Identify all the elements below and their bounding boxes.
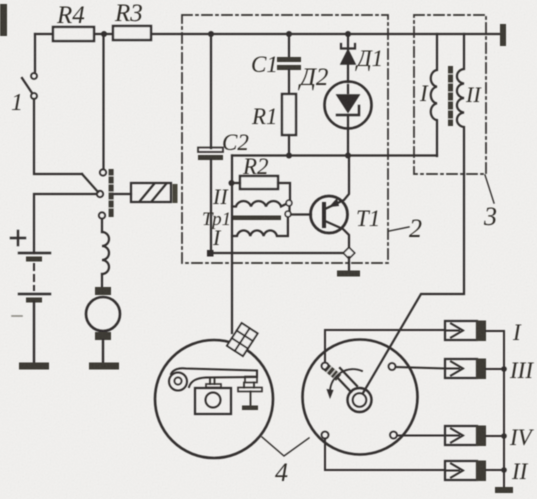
wire plug III right <box>486 368 504 370</box>
node junction R4-R3 <box>101 31 107 37</box>
ground battery <box>19 363 49 370</box>
relay armature arm <box>82 174 98 192</box>
ground generator <box>89 363 119 370</box>
node C1 top <box>286 31 292 37</box>
scan smudge top left corner <box>0 4 7 36</box>
label 3 pointer <box>485 175 494 203</box>
wire bottom rail <box>210 252 349 254</box>
ignition coil primary I <box>431 34 437 156</box>
breaker pivot <box>169 373 187 391</box>
node D1 top <box>345 31 351 37</box>
diode D1 <box>347 34 349 49</box>
wire R1 bottom <box>288 135 290 156</box>
breaker fixed contact <box>245 377 257 383</box>
node C2 top <box>208 31 214 37</box>
terminal chassis top right <box>500 24 506 46</box>
spark plug III <box>445 359 486 380</box>
node diamond emitter <box>343 247 354 258</box>
relay contact middle <box>97 191 103 197</box>
wire C2 bottom <box>210 160 212 253</box>
relay contact top <box>100 169 106 175</box>
wire HV to rotor <box>363 174 464 393</box>
resistor R2 <box>240 176 278 189</box>
transistor T1 <box>311 196 348 233</box>
ground emitter <box>337 271 360 277</box>
label 2 pointer <box>389 227 409 231</box>
wire D2 bottom <box>347 128 349 156</box>
spark plug II <box>445 461 486 482</box>
block 2 dash-dot box <box>182 15 388 263</box>
breaker moving contact posts <box>210 378 215 384</box>
wire contact2 to plug II <box>325 439 445 471</box>
relay armature bar <box>109 169 114 217</box>
wire contact to inductor <box>101 219 103 232</box>
generator G <box>101 274 103 288</box>
wire battery feed <box>34 194 97 253</box>
distributor circle <box>303 340 418 455</box>
breaker condenser box <box>195 388 231 414</box>
wire mid rail <box>232 154 437 156</box>
distributor rotation arrow <box>330 369 362 391</box>
resistor R1 <box>282 94 296 135</box>
distributor rotor <box>348 388 372 412</box>
wire top rail <box>35 33 501 35</box>
wire contact1 to plug I <box>325 330 445 363</box>
minus label <box>12 315 22 317</box>
wire C2 top <box>210 34 212 148</box>
wire plug II right <box>486 469 504 471</box>
breaker lever bar <box>171 368 257 387</box>
relay coil <box>131 183 171 202</box>
transformer Tr1 winding II <box>232 201 286 206</box>
wire base <box>291 213 311 215</box>
wire contact4 to plug IV <box>397 435 445 437</box>
wire plug I right <box>486 331 504 487</box>
node plug IV <box>501 433 507 439</box>
node plug II <box>501 467 507 473</box>
spark plug IV <box>445 426 486 447</box>
wire to relay contact top <box>102 37 104 169</box>
breaker housing circle <box>155 340 273 458</box>
transformer Tr1 winding I <box>232 217 288 236</box>
ignition coil secondary II <box>457 34 464 174</box>
resistor R4 <box>53 27 94 41</box>
wire base column to breaker <box>231 156 233 334</box>
label 4 pointer <box>262 437 309 456</box>
wire generator to ground <box>102 340 104 363</box>
wire contact3 to plug III <box>396 367 446 369</box>
relay contact bottom <box>99 212 105 218</box>
inductor L <box>102 232 109 274</box>
spark plug I <box>445 321 486 342</box>
diode D2 <box>325 82 372 129</box>
block 3 dash-dot box <box>414 15 486 174</box>
transformer Tr1 core <box>233 216 281 221</box>
switch 1 <box>34 34 36 73</box>
ground plug bus <box>495 487 513 493</box>
ignition coil core <box>448 66 453 126</box>
node R1 bottom <box>286 153 292 159</box>
resistor R3 <box>113 26 151 40</box>
wire C1 top <box>288 34 290 57</box>
distributor contact top-left <box>322 363 329 370</box>
wire plug IV right <box>486 435 504 437</box>
node R2 left <box>229 180 235 186</box>
wire relay bar to coil <box>114 193 131 195</box>
distributor contact top-right <box>389 363 396 370</box>
plus label <box>11 231 25 245</box>
wire battery to ground <box>33 302 35 363</box>
capacitor C2 <box>198 148 223 153</box>
node D2 bottom <box>345 153 351 159</box>
node square C2 bottom <box>207 250 214 257</box>
capacitor C1 <box>277 57 301 62</box>
battery GB <box>19 252 50 254</box>
node plug III <box>501 366 507 372</box>
wire switch to relay arm <box>34 99 82 174</box>
distributor contact bottom-right <box>390 432 397 439</box>
distributor contact bottom-left <box>322 432 329 439</box>
wire C1 to R1 <box>288 70 290 94</box>
wire emitter to ground <box>348 257 350 271</box>
breaker terminal blocks <box>227 323 258 356</box>
